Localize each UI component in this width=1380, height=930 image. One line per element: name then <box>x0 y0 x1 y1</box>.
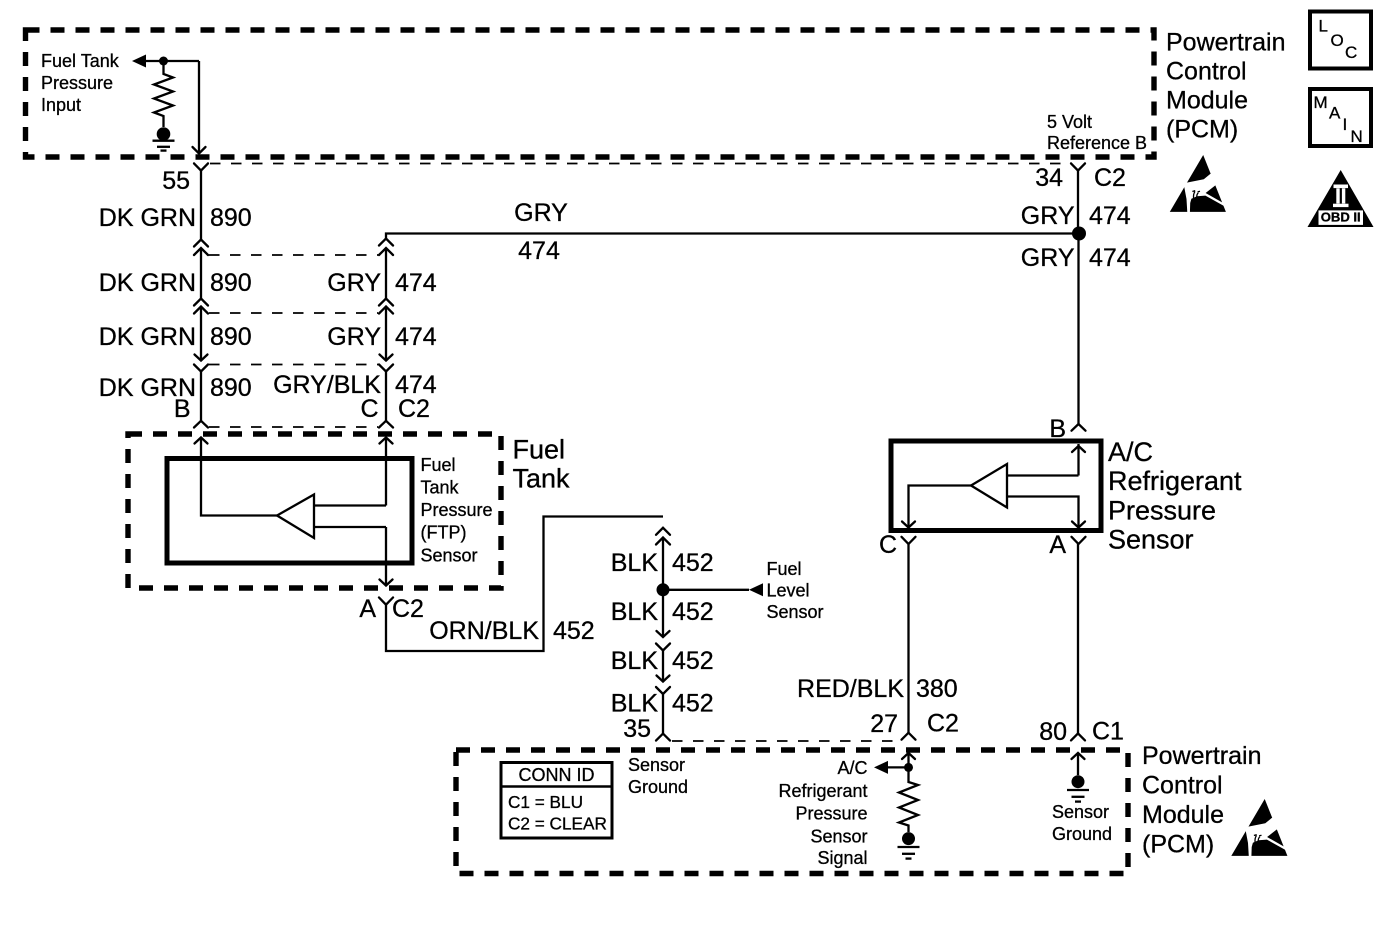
wire GRY/BLK 474 segment 4 <box>385 372 387 422</box>
in-line connector L4 (arrow-down over fork-up) <box>195 355 208 361</box>
ESD symbol bottom right <box>1231 799 1289 857</box>
svg-text:Sensor: Sensor <box>767 602 824 622</box>
MAIN reference box <box>1310 89 1371 146</box>
svg-text:Module: Module <box>1142 801 1224 829</box>
svg-text:GRY: GRY <box>327 323 381 351</box>
svg-text:Ground: Ground <box>1052 824 1112 844</box>
label Powertrain Control Module (PCM) bottom <box>1142 742 1262 859</box>
wire from arrow to node <box>146 60 199 62</box>
svg-text:80: 80 <box>1039 718 1067 746</box>
svg-text:DK GRN: DK GRN <box>99 269 196 297</box>
pin C connector fork (A/C sensor) <box>902 537 916 544</box>
svg-text:474: 474 <box>1089 244 1131 272</box>
svg-text:Tank: Tank <box>513 464 571 494</box>
wire to A/C signal arrow <box>888 766 909 768</box>
thin dashed connector line L4 <box>209 364 378 366</box>
A/C Refrigerant Pressure Sensor box <box>891 441 1101 531</box>
PCM top dashed box (Powertrain Control Module) <box>26 30 1155 157</box>
svg-text:Fuel: Fuel <box>767 559 802 579</box>
svg-text:890: 890 <box>210 374 252 402</box>
svg-text:890: 890 <box>210 204 252 232</box>
svg-text:Sensor: Sensor <box>628 755 685 775</box>
svg-text:380: 380 <box>916 675 958 703</box>
svg-text:C2: C2 <box>1094 164 1126 192</box>
svg-text:BLK: BLK <box>611 647 659 675</box>
svg-text:Fuel: Fuel <box>421 455 456 475</box>
svg-text:(PCM): (PCM) <box>1166 116 1238 144</box>
svg-text:(PCM): (PCM) <box>1142 831 1214 859</box>
svg-text:Control: Control <box>1142 772 1223 800</box>
svg-text:C: C <box>1345 43 1357 62</box>
svg-text:452: 452 <box>672 690 714 718</box>
svg-text:C2 = CLEAR: C2 = CLEAR <box>508 814 607 834</box>
label Powertrain Control Module (PCM) top right <box>1166 29 1286 144</box>
wire DK GRN 890 segment 3 <box>200 307 202 361</box>
svg-text:A: A <box>1049 531 1066 559</box>
svg-text:Sensor: Sensor <box>810 826 867 846</box>
pin B entry arrow inside fuel tank <box>200 438 202 459</box>
svg-text:Level: Level <box>767 581 810 601</box>
resistor (FTP input pull-up) <box>154 61 173 127</box>
arrow at C exit <box>902 522 915 528</box>
label Sensor Ground (pin 80) <box>1052 802 1112 844</box>
svg-text:5 Volt: 5 Volt <box>1047 112 1092 132</box>
wire ORN/BLK 452 from pin A <box>386 517 663 652</box>
ground (A/C signal) <box>902 832 915 845</box>
thin dashed connector line at B/C <box>209 426 378 428</box>
svg-text:Powertrain: Powertrain <box>1142 742 1262 770</box>
svg-text:C1 = BLU: C1 = BLU <box>508 792 583 812</box>
wire to fuel level sensor <box>663 589 749 591</box>
thin dashed connector line 35 to 27 <box>672 740 898 742</box>
svg-text:GRY: GRY <box>514 199 568 227</box>
svg-text:ORN/BLK: ORN/BLK <box>429 617 539 645</box>
svg-text:Reference B: Reference B <box>1047 133 1147 153</box>
PCM bottom dashed box <box>456 750 1128 874</box>
svg-text:Sensor: Sensor <box>1108 525 1194 555</box>
svg-text:O: O <box>1331 31 1344 50</box>
A/C internal wire from B with arrow <box>1077 444 1079 476</box>
pin 55 connector fork <box>194 163 208 170</box>
label Fuel Level Sensor <box>767 559 824 622</box>
svg-text:C2: C2 <box>927 710 959 738</box>
wire GRY 474 horizontal run <box>386 234 1079 239</box>
svg-text:27: 27 <box>870 710 898 738</box>
in-line connector G3 (arrow-down over fork-up) <box>380 355 393 361</box>
svg-text:452: 452 <box>672 598 714 626</box>
svg-text:A/C: A/C <box>837 758 867 778</box>
arrow at A exit <box>380 580 393 586</box>
svg-text:Pressure: Pressure <box>795 804 867 824</box>
svg-text:A: A <box>1329 104 1341 123</box>
pin 34 connector fork <box>1071 163 1085 170</box>
FTP internal wire to A <box>385 527 387 586</box>
label Fuel Tank Pressure Input <box>41 51 120 115</box>
svg-text:890: 890 <box>210 323 252 351</box>
FTP triangle input bottom line <box>314 526 386 528</box>
A/C triangle input top line <box>1007 474 1079 476</box>
pin 27 connector fork (open down) <box>902 733 916 740</box>
wire DK GRN 890 segment 1 <box>200 181 202 240</box>
wire from A to pin 80 <box>1077 544 1079 733</box>
Fuel Tank dashed box <box>128 434 501 588</box>
svg-text:M: M <box>1314 93 1328 112</box>
pin C connector fork (open down) <box>379 421 393 428</box>
svg-text:Fuel: Fuel <box>513 435 566 465</box>
label Fuel Tank Pressure (FTP) Sensor <box>421 455 493 566</box>
A/C triangle input bottom line to A <box>1007 497 1079 528</box>
svg-text:Sensor: Sensor <box>1052 802 1109 822</box>
svg-text:Refrigerant: Refrigerant <box>1108 466 1242 496</box>
svg-text:C: C <box>879 531 897 559</box>
svg-text:Pressure: Pressure <box>1108 496 1216 526</box>
svg-text:474: 474 <box>518 237 560 265</box>
in-line connector BLK mid (arrow-down over fork-up) <box>657 631 670 637</box>
svg-text:A: A <box>359 595 376 623</box>
svg-text:C2: C2 <box>398 395 430 423</box>
svg-text:BLK: BLK <box>611 598 659 626</box>
svg-text:Module: Module <box>1166 87 1248 115</box>
wire DK GRN 890 segment 2 <box>200 248 202 299</box>
svg-text:Tank: Tank <box>421 478 460 498</box>
FTP triangle input top line <box>314 504 386 506</box>
wire GRY from pin 34 down to junction and on to B <box>1077 171 1079 234</box>
wire DK GRN 890 segment 4 <box>200 372 202 422</box>
svg-text:Control: Control <box>1166 58 1247 86</box>
svg-text:Ground: Ground <box>628 777 688 797</box>
wire BLK 452 segment 4 <box>662 694 664 734</box>
ground (sensor ground pin 80) <box>1072 775 1085 788</box>
junction dot GRY wire <box>1072 227 1086 241</box>
wire BLK 452 segment 1 <box>662 538 664 590</box>
CONN ID table box <box>501 763 612 839</box>
pin B connector fork (open down) <box>194 421 208 428</box>
wire BLK 452 segment 3 <box>662 651 664 682</box>
in-line connector L2 (fork over arrow) <box>194 240 208 247</box>
svg-text:474: 474 <box>395 269 437 297</box>
label Sensor Ground (pin 35) <box>628 755 688 797</box>
pin C entry arrow inside fuel tank <box>385 438 387 459</box>
resistor (A/C signal, inside PCM) <box>899 767 918 832</box>
label 5 Volt Reference B <box>1047 112 1147 153</box>
FTP internal wire from B <box>201 459 277 516</box>
ESD symbol top right <box>1170 155 1228 213</box>
FTP sensor box <box>167 459 412 564</box>
svg-text:A/C: A/C <box>1108 437 1153 467</box>
svg-text:RED/BLK: RED/BLK <box>797 675 904 703</box>
svg-text:55: 55 <box>162 167 190 195</box>
svg-text:474: 474 <box>395 323 437 351</box>
op-amp triangle A/C sensor <box>971 464 1007 508</box>
FTP internal wire from C <box>385 459 387 506</box>
junction dot pin 27 <box>904 763 913 772</box>
svg-text:BLK: BLK <box>611 549 659 577</box>
svg-text:Pressure: Pressure <box>421 500 493 520</box>
label A/C Refrigerant Pressure Sensor Signal <box>778 758 867 868</box>
thin dashed connector line L2 <box>209 254 378 256</box>
label A/C Refrigerant Pressure Sensor <box>1108 437 1242 555</box>
pin A connector fork (A/C sensor) <box>1072 537 1086 544</box>
junction dot BLK wire <box>657 583 670 596</box>
pin B fork above A/C sensor (open down) <box>1072 424 1086 431</box>
OBD II symbol <box>1308 170 1374 227</box>
svg-text:474: 474 <box>1089 202 1131 230</box>
wire BLK 452 segment 2 <box>662 590 664 637</box>
in-line connector BLK low (arrow-down over fork-up) <box>657 676 670 682</box>
svg-text:OBD II: OBD II <box>1321 210 1361 225</box>
pin 35 connector fork (open down) <box>656 734 670 741</box>
svg-text:GRY: GRY <box>327 269 381 297</box>
svg-text:GRY: GRY <box>1021 202 1075 230</box>
A/C triangle output to C <box>909 486 972 528</box>
LOC reference box <box>1310 12 1371 69</box>
svg-text:Powertrain: Powertrain <box>1166 29 1286 57</box>
off-page arrow to A/C Refrigerant Pressure Sensor Signal <box>874 761 888 774</box>
pin 80 connector fork (open down) <box>1071 733 1085 740</box>
op-amp triangle FTP sensor <box>277 495 314 539</box>
svg-text:C2: C2 <box>392 595 424 623</box>
in-line connector G2 (fork over arrow) <box>379 299 393 306</box>
in-line connector BLK top (fork over arrow) <box>656 528 670 535</box>
svg-text:Input: Input <box>41 95 81 115</box>
svg-text:N: N <box>1351 127 1363 146</box>
arrow at A exit <box>1072 522 1085 528</box>
node junction dot <box>159 57 168 66</box>
pin A connector fork <box>379 598 393 605</box>
wire GRY 474 segment 2 <box>385 248 387 299</box>
svg-text:Fuel Tank: Fuel Tank <box>41 51 120 71</box>
wire down to pin 55 with arrow <box>198 61 200 154</box>
svg-text:DK GRN: DK GRN <box>99 204 196 232</box>
label Fuel Tank <box>513 435 571 494</box>
svg-text:452: 452 <box>553 617 595 645</box>
svg-text:35: 35 <box>623 715 651 743</box>
svg-text:Refrigerant: Refrigerant <box>778 781 867 801</box>
svg-text:34: 34 <box>1035 164 1063 192</box>
wire RED/BLK 380 from C to pin 27 <box>907 544 909 733</box>
svg-text:Sensor: Sensor <box>421 546 478 566</box>
C2 connector thin dashed line 55 to 34 <box>210 163 1070 165</box>
svg-text:Pressure: Pressure <box>41 73 113 93</box>
svg-text:Signal: Signal <box>817 848 867 868</box>
pin 80 entry arrow inside PCM <box>1077 753 1079 775</box>
svg-text:452: 452 <box>672 549 714 577</box>
thin dashed connector line L3 <box>209 312 378 314</box>
off-page arrow to Fuel Level Sensor <box>749 583 763 596</box>
svg-text:CONN ID: CONN ID <box>519 765 595 785</box>
in-line connector L3 (fork over arrow) <box>194 299 208 306</box>
svg-text:452: 452 <box>672 647 714 675</box>
svg-text:B: B <box>174 395 191 423</box>
svg-text:BLK: BLK <box>611 690 659 718</box>
svg-text:890: 890 <box>210 269 252 297</box>
wire GRY 474 segment 3 <box>385 307 387 361</box>
svg-text:C1: C1 <box>1092 718 1124 746</box>
pin 27 entry arrow inside PCM <box>907 753 909 767</box>
in-line connector G1 (fork over arrow) <box>379 239 393 246</box>
svg-text:L: L <box>1319 17 1328 36</box>
svg-text:DK GRN: DK GRN <box>99 323 196 351</box>
svg-text:(FTP): (FTP) <box>421 523 467 543</box>
svg-text:C: C <box>360 395 378 423</box>
svg-text:I: I <box>1343 115 1348 134</box>
svg-text:GRY: GRY <box>1021 244 1075 272</box>
off-page arrow to Fuel Tank Pressure Input <box>132 55 146 68</box>
ground (inside PCM) <box>157 127 171 141</box>
